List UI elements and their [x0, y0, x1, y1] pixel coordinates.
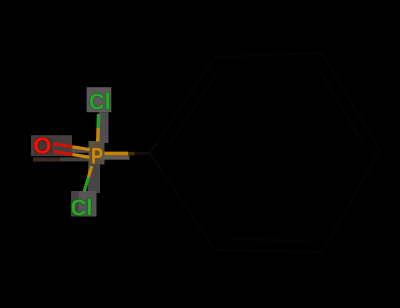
svg-text:P: P: [91, 145, 103, 169]
svg-text:O: O: [33, 133, 51, 159]
svg-text:Cl: Cl: [89, 89, 111, 115]
svg-text:Cl: Cl: [71, 194, 93, 221]
